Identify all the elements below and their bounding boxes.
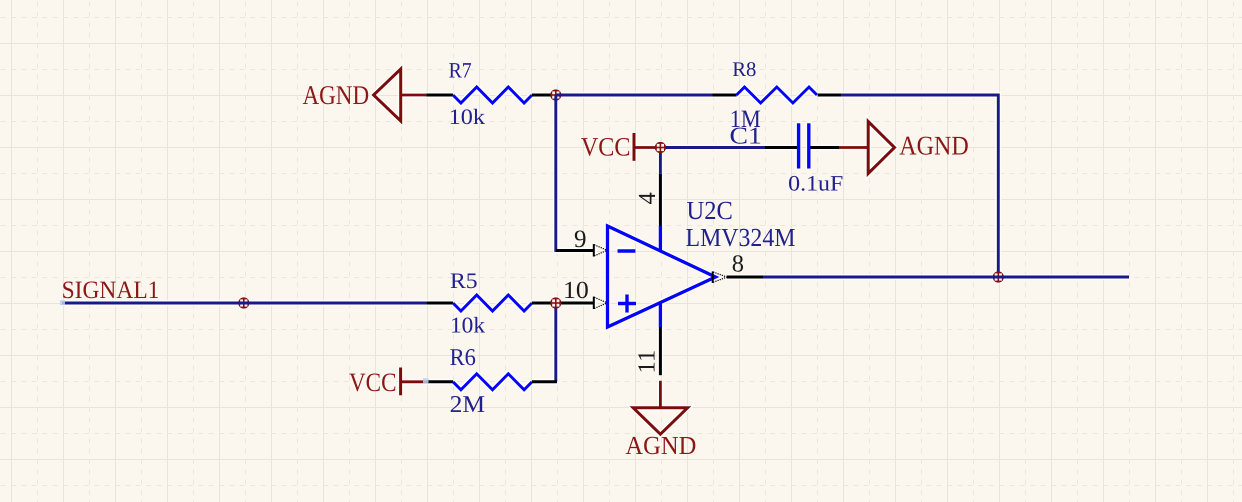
pin 8 (output)	[713, 271, 763, 283]
resistor R5	[426, 295, 555, 311]
ground AGND (top left)	[374, 69, 427, 121]
pin number 11	[634, 350, 661, 374]
wire end marker (SIGNAL1)	[60, 300, 65, 305]
resistor R6	[427, 374, 557, 390]
svg-text:10k: 10k	[449, 104, 485, 129]
svg-text:0.1uF: 0.1uF	[788, 171, 843, 196]
svg-text:R8: R8	[732, 57, 756, 81]
wire SIGNAL1	[62, 302, 426, 305]
ground AGND (right of C1)	[839, 122, 895, 174]
junction output / feedback node	[993, 271, 1004, 282]
wire from node down to pin 9	[556, 95, 558, 251]
svg-text:C1: C1	[730, 123, 762, 149]
capacitor C1	[765, 123, 839, 168]
svg-text:10: 10	[563, 277, 589, 304]
junction VCC / pin4 node	[655, 142, 666, 153]
svg-text:1: 1	[634, 361, 661, 373]
svg-text:9: 9	[574, 226, 587, 253]
ground AGND (bottom, pin 11)	[633, 381, 687, 434]
svg-text:AGND: AGND	[899, 130, 969, 160]
svg-text:R5: R5	[450, 268, 478, 293]
pin 11 (V-)	[659, 327, 662, 375]
power port VCC (bottom)	[401, 368, 427, 396]
pin end marker (R6/VCC)	[423, 378, 429, 384]
junction R5 / pin10 / R6 node	[550, 297, 561, 308]
svg-text:LMV324M: LMV324M	[686, 223, 796, 252]
power port VCC (top)	[634, 133, 660, 161]
svg-text:2M: 2M	[450, 392, 486, 418]
resistor R7	[426, 87, 556, 103]
svg-text:AGND: AGND	[625, 431, 696, 460]
wire R8 to right corner down to output	[842, 95, 999, 277]
svg-text:8: 8	[732, 250, 744, 277]
wire top rail to R8	[556, 94, 713, 97]
svg-text:R6: R6	[450, 345, 476, 371]
svg-text:AGND: AGND	[303, 80, 370, 110]
junction on SIGNAL1 wire	[238, 297, 249, 308]
pin 4 (V+)	[659, 174, 662, 226]
svg-text:U2C: U2C	[687, 196, 733, 225]
junction at R7/R8/pin9 node	[550, 89, 561, 100]
wire VCC node down to pin 4	[659, 148, 662, 174]
pin 9 (inverting input)	[556, 244, 607, 256]
svg-text:SIGNAL1: SIGNAL1	[62, 277, 160, 304]
svg-text:VCC: VCC	[349, 367, 397, 397]
op-amp U2C	[608, 226, 716, 327]
wire VCC rail to C1	[660, 146, 765, 149]
svg-text:10k: 10k	[450, 312, 486, 337]
wire node down to R6	[554, 303, 557, 382]
pin 10 (non-inverting input)	[556, 297, 607, 309]
resistor R8	[713, 87, 842, 103]
svg-text:4: 4	[634, 192, 661, 204]
svg-text:R7: R7	[449, 57, 472, 82]
svg-text:VCC: VCC	[581, 132, 631, 162]
wire output net	[763, 276, 1129, 279]
svg-text:1: 1	[634, 350, 661, 362]
